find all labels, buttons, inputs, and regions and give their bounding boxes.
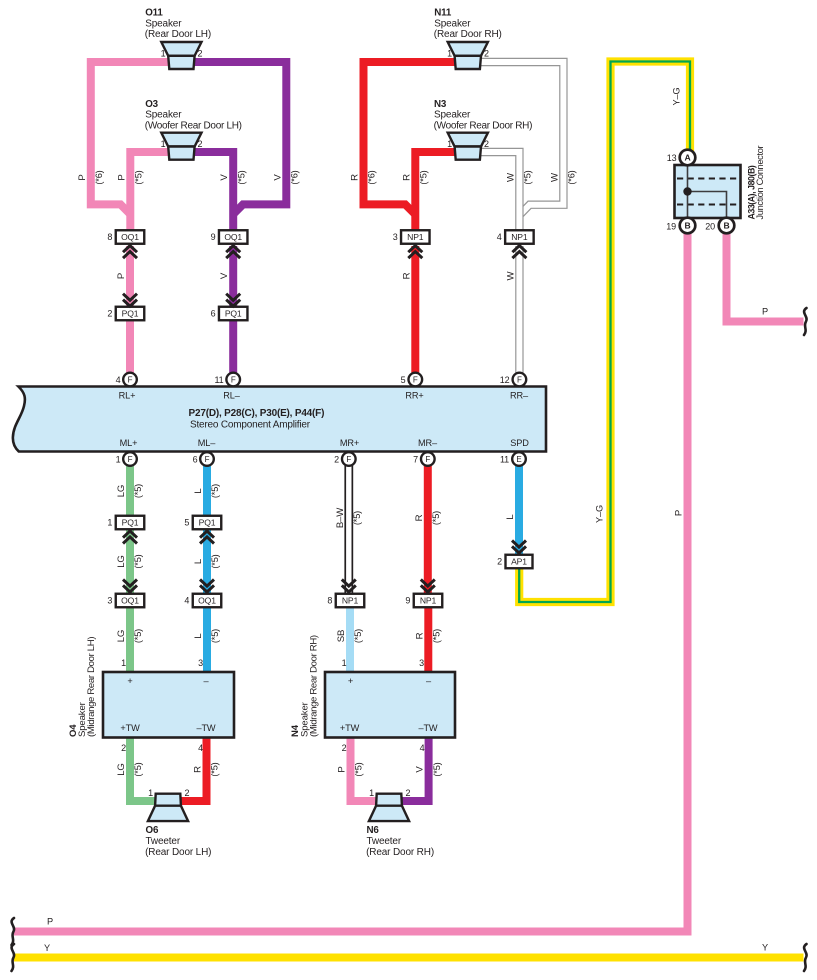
svg-text:2: 2	[406, 788, 411, 798]
svg-text:B: B	[684, 220, 690, 230]
amplifier P27(D) P28(C) P30(E) P44(F) Stereo Component Amplifier	[13, 387, 546, 452]
svg-text:P: P	[116, 174, 127, 180]
svg-text:1: 1	[121, 658, 126, 668]
svg-text:8: 8	[107, 232, 112, 242]
connector chevrons	[226, 246, 240, 253]
svg-text:NP1: NP1	[420, 596, 437, 606]
svg-text:Tweeter: Tweeter	[146, 836, 181, 847]
svg-text:6: 6	[193, 455, 198, 465]
svg-text:P: P	[674, 510, 685, 516]
svg-text:(*5): (*5)	[523, 170, 533, 184]
svg-text:F: F	[128, 375, 133, 384]
svg-text:19: 19	[666, 221, 676, 231]
svg-text:Y: Y	[762, 943, 768, 953]
connector chevrons	[123, 246, 137, 253]
connector AP1 pin 2	[506, 555, 533, 569]
svg-text:Y–G: Y–G	[595, 505, 605, 523]
svg-text:(*5): (*5)	[210, 629, 220, 643]
break symbol P wire right	[804, 308, 807, 335]
svg-text:F: F	[205, 455, 210, 464]
svg-text:Junction Connector: Junction Connector	[755, 145, 765, 219]
svg-text:1: 1	[447, 139, 452, 149]
junction pin A13	[680, 150, 696, 166]
svg-text:1: 1	[342, 658, 347, 668]
svg-text:OQ1: OQ1	[121, 596, 139, 606]
wire SB from NP1-8 to N4 pin 1	[346, 606, 354, 673]
svg-text:(Midrange Rear Door RH): (Midrange Rear Door RH)	[308, 635, 319, 737]
svg-text:3: 3	[419, 658, 424, 668]
svg-text:+: +	[127, 676, 132, 686]
wire V inner from O3 pin2 to connector OQ1-9	[193, 152, 233, 231]
connector chevrons	[123, 300, 137, 307]
connector chevrons	[200, 585, 214, 592]
svg-text:ML+: ML+	[120, 438, 138, 448]
svg-text:NP1: NP1	[342, 596, 359, 606]
svg-text:E: E	[516, 455, 521, 464]
junction pin B20	[719, 218, 735, 234]
amplifier pin 6 F	[200, 452, 214, 466]
speaker O4 (Midrange Rear Door LH)	[103, 672, 234, 738]
svg-text:7: 7	[413, 455, 418, 465]
svg-text:8: 8	[327, 596, 332, 606]
svg-text:Stereo Component Amplifier: Stereo Component Amplifier	[190, 420, 311, 431]
speaker N11 (Rear Door RH)	[448, 42, 488, 69]
svg-text:V: V	[219, 272, 230, 279]
svg-text:9: 9	[211, 232, 216, 242]
svg-text:F: F	[231, 375, 236, 384]
svg-text:LG: LG	[116, 630, 127, 643]
wire W from NP1-4 to amplifier pin 12	[515, 246, 523, 373]
connector NP1 pin 9	[414, 594, 443, 608]
wire R from NP1-9 to N4 pin 3	[424, 606, 432, 673]
connector PQ1 pin 2	[116, 307, 145, 321]
svg-text:(*5): (*5)	[210, 762, 220, 776]
svg-text:9: 9	[405, 596, 410, 606]
svg-text:Speaker: Speaker	[145, 110, 182, 121]
svg-text:P: P	[762, 307, 768, 317]
svg-text:R: R	[401, 174, 412, 181]
svg-text:(*5): (*5)	[134, 170, 144, 184]
svg-text:11: 11	[214, 375, 223, 385]
svg-text:P: P	[116, 273, 127, 279]
svg-text:+TW: +TW	[340, 723, 360, 733]
svg-text:(*5): (*5)	[133, 554, 143, 568]
svg-text:1: 1	[161, 139, 166, 149]
connector chevrons	[226, 300, 240, 307]
wire R from amplifier pin 7 to NP1-9	[424, 465, 432, 595]
svg-text:V: V	[272, 174, 283, 181]
svg-text:5: 5	[401, 375, 406, 385]
svg-text:Speaker: Speaker	[434, 18, 471, 29]
connector chevrons	[200, 531, 214, 538]
svg-text:O11: O11	[145, 8, 163, 19]
connector PQ1 pin 1	[116, 516, 145, 530]
svg-text:6: 6	[211, 309, 216, 319]
svg-text:F: F	[425, 455, 430, 464]
tweeter O6 (Rear Door LH)	[155, 794, 181, 806]
svg-text:RL–: RL–	[223, 391, 240, 401]
svg-text:LG: LG	[116, 763, 127, 776]
svg-text:(Midrange Rear Door LH): (Midrange Rear Door LH)	[86, 637, 97, 737]
svg-text:+: +	[348, 676, 353, 686]
svg-text:(Rear Door RH): (Rear Door RH)	[434, 29, 502, 40]
svg-text:20: 20	[705, 221, 715, 231]
svg-text:(Rear Door LH): (Rear Door LH)	[145, 29, 211, 40]
wire R inner from N3 pin1 to connector NP1-3	[415, 152, 457, 231]
speaker cone	[448, 133, 488, 147]
svg-text:2: 2	[334, 455, 339, 465]
speaker cone	[448, 42, 488, 56]
amplifier pin 7 F	[421, 452, 435, 466]
svg-text:(*5): (*5)	[419, 170, 429, 184]
svg-text:2: 2	[198, 139, 203, 149]
svg-text:(*6): (*6)	[94, 170, 104, 184]
wire L from amplifier pin 6 to PQ1-5	[203, 465, 211, 517]
svg-text:L: L	[193, 633, 204, 639]
svg-text:4: 4	[420, 743, 425, 753]
connector chevrons	[512, 246, 526, 253]
amplifier pin 12 F	[513, 373, 527, 387]
svg-text:4: 4	[184, 596, 189, 606]
svg-text:4: 4	[198, 743, 203, 753]
svg-text:2: 2	[107, 309, 112, 319]
connector PQ1 pin 5	[193, 516, 222, 530]
wire V outer from O11 pin2 to splice	[193, 62, 286, 215]
svg-text:O6: O6	[146, 825, 159, 836]
wire W inner from N3 pin2 to connector NP1-4	[478, 152, 519, 231]
wire LG between PQ1-1 and OQ1-3	[126, 528, 134, 595]
break symbol P wire bottom left	[12, 918, 15, 945]
wire P from junction pin B20 to right edge	[727, 232, 804, 322]
svg-text:N11: N11	[434, 8, 452, 19]
svg-text:–TW: –TW	[419, 723, 438, 733]
wire P from PQ1-2 to amplifier pin 4	[126, 319, 134, 373]
connector NP1 pin 8	[336, 594, 365, 608]
svg-text:(*5): (*5)	[133, 762, 143, 776]
svg-text:Y: Y	[44, 943, 50, 953]
speaker cone	[161, 42, 201, 56]
wire Y across bottom	[14, 954, 804, 962]
connector NP1 pin 4	[505, 230, 534, 244]
svg-text:(Rear Door RH): (Rear Door RH)	[366, 847, 434, 858]
svg-text:R: R	[414, 632, 425, 639]
svg-text:P: P	[77, 174, 88, 180]
svg-text:NP1: NP1	[511, 232, 528, 242]
amplifier pin 1 F	[123, 452, 137, 466]
svg-text:3: 3	[198, 658, 203, 668]
svg-text:(Woofer Rear Door RH): (Woofer Rear Door RH)	[434, 120, 533, 131]
wire V from PQ1-6 to amplifier pin 11	[229, 319, 237, 373]
svg-text:N3: N3	[434, 99, 447, 110]
wire P from junction pin B19 to bottom left	[14, 232, 688, 932]
svg-text:MR+: MR+	[340, 438, 359, 448]
svg-text:R: R	[401, 272, 412, 279]
svg-text:L: L	[193, 488, 204, 494]
svg-text:R: R	[193, 766, 204, 773]
connector OQ1 pin 4	[193, 594, 222, 608]
svg-text:(*5): (*5)	[210, 484, 220, 498]
wire P between OQ1-8 and PQ1-2	[126, 246, 134, 308]
amplifier pin 11 F	[226, 373, 240, 387]
svg-text:RR–: RR–	[510, 391, 529, 401]
svg-text:4: 4	[497, 232, 502, 242]
svg-text:NP1: NP1	[407, 232, 424, 242]
svg-text:(*5): (*5)	[236, 170, 246, 184]
svg-text:MR–: MR–	[418, 438, 438, 448]
wire P from N4 +TW to tweeter N6 pin 1	[351, 736, 378, 801]
svg-text:V: V	[219, 174, 230, 181]
svg-text:F: F	[346, 455, 351, 464]
svg-text:V: V	[415, 766, 426, 773]
svg-text:(*5): (*5)	[210, 554, 220, 568]
svg-text:SPD: SPD	[510, 438, 529, 448]
svg-text:R: R	[414, 514, 425, 521]
amplifier pin 11 E	[512, 452, 526, 466]
svg-text:2: 2	[484, 49, 489, 59]
svg-text:B–W: B–W	[335, 507, 346, 528]
connector chevrons	[342, 585, 356, 592]
svg-text:A: A	[684, 152, 690, 162]
junction pin B19	[680, 218, 696, 234]
connector chevrons	[408, 246, 422, 253]
junction connector A33(A) J80(B)	[675, 165, 741, 218]
wire LG from OQ1-3 to O4 pin 1	[126, 606, 134, 673]
svg-text:–TW: –TW	[197, 723, 216, 733]
svg-text:5: 5	[184, 518, 189, 528]
svg-text:W: W	[505, 172, 516, 182]
svg-text:P27(D), P28(C), P30(E), P44(F): P27(D), P28(C), P30(E), P44(F)	[189, 408, 325, 419]
wire L from amplifier pin SPD to AP1-2	[515, 465, 523, 556]
svg-text:1: 1	[161, 49, 166, 59]
wire R from O4 -TW to tweeter O6 pin 2	[179, 736, 207, 801]
svg-text:4: 4	[116, 375, 121, 385]
svg-text:AP1: AP1	[511, 557, 527, 567]
svg-text:(*6): (*6)	[367, 170, 377, 184]
svg-text:(Rear Door LH): (Rear Door LH)	[145, 847, 211, 858]
svg-text:L: L	[193, 558, 204, 564]
svg-text:W: W	[505, 270, 516, 280]
wire LG from O4 +TW to tweeter O6 pin 1	[130, 736, 157, 801]
connector OQ1 pin 8	[116, 230, 145, 244]
svg-text:(*5): (*5)	[352, 511, 362, 525]
svg-text:PQ1: PQ1	[122, 309, 139, 319]
svg-text:+TW: +TW	[120, 723, 140, 733]
svg-text:P: P	[47, 917, 53, 927]
wire L between PQ1-5 and OQ1-4	[203, 528, 211, 595]
connector chevrons	[123, 531, 137, 538]
svg-text:(*5): (*5)	[354, 762, 364, 776]
tweeter N6 (Rear Door RH)	[369, 794, 409, 821]
svg-text:(*5): (*5)	[431, 511, 441, 525]
svg-text:RR+: RR+	[405, 391, 423, 401]
svg-text:PQ1: PQ1	[199, 518, 216, 528]
svg-text:Tweeter: Tweeter	[367, 836, 402, 847]
wire L from OQ1-4 to O4 pin 3	[203, 606, 211, 673]
svg-text:11: 11	[500, 455, 509, 465]
wire B-W from amplifier pin 2 to NP1-8	[344, 465, 353, 595]
svg-text:12: 12	[500, 375, 510, 385]
break symbol Y wire bottom left	[12, 944, 15, 971]
wire P inner from O3 pin1 to connector OQ1-8	[130, 152, 170, 231]
svg-text:LG: LG	[116, 485, 127, 498]
connector chevrons	[123, 585, 137, 592]
svg-text:2: 2	[185, 788, 190, 798]
speaker O3 (Woofer Rear Door LH)	[161, 133, 201, 160]
connector OQ1 pin 9	[219, 230, 248, 244]
wire V from N4 -TW to tweeter N6 pin 2	[401, 736, 429, 801]
svg-text:R: R	[350, 174, 361, 181]
break symbol Y wire bottom right	[804, 944, 807, 971]
svg-text:1: 1	[116, 455, 121, 465]
amplifier pin 4 F	[123, 373, 137, 387]
svg-text:LG: LG	[116, 555, 127, 568]
speaker N3 (Woofer Rear Door RH)	[448, 133, 488, 160]
wire P outer from O11 pin1 to splice	[91, 62, 170, 215]
svg-text:(*5): (*5)	[432, 762, 442, 776]
wire R from NP1-3 to amplifier pin 5	[411, 246, 419, 373]
svg-text:1: 1	[447, 49, 452, 59]
connector chevrons	[512, 546, 526, 553]
svg-text:2: 2	[121, 743, 126, 753]
svg-text:2: 2	[497, 557, 502, 567]
svg-text:F: F	[413, 375, 418, 384]
junction splice dot	[683, 187, 691, 195]
svg-text:(*5): (*5)	[133, 629, 143, 643]
svg-text:(*5): (*5)	[432, 629, 442, 643]
svg-text:RL+: RL+	[119, 391, 136, 401]
wire Y-G from AP1-2 to junction connector pin A	[519, 62, 690, 603]
svg-text:F: F	[517, 375, 522, 384]
connector OQ1 pin 3	[116, 594, 145, 608]
connector chevrons	[421, 585, 435, 592]
svg-text:N6: N6	[367, 825, 380, 836]
speaker cone	[161, 133, 201, 147]
svg-text:W: W	[549, 172, 560, 182]
svg-text:1: 1	[148, 788, 153, 798]
svg-text:P: P	[337, 766, 348, 772]
svg-text:PQ1: PQ1	[225, 309, 242, 319]
svg-text:Speaker: Speaker	[434, 110, 471, 121]
svg-text:2: 2	[342, 743, 347, 753]
svg-text:13: 13	[667, 153, 677, 163]
svg-text:3: 3	[107, 596, 112, 606]
wire LG from amplifier pin 1 to PQ1-1	[126, 465, 134, 517]
connector PQ1 pin 6	[219, 307, 248, 321]
svg-text:(*5): (*5)	[353, 629, 363, 643]
wire V between OQ1-9 and PQ1-6	[229, 246, 237, 308]
svg-text:2: 2	[198, 49, 203, 59]
wire R outer from N11 pin1 to splice	[364, 62, 458, 215]
svg-text:L: L	[505, 514, 516, 520]
svg-text:Y–G: Y–G	[671, 88, 681, 106]
svg-text:OQ1: OQ1	[121, 232, 139, 242]
svg-text:2: 2	[484, 139, 489, 149]
svg-text:PQ1: PQ1	[122, 518, 139, 528]
svg-text:(Woofer Rear Door LH): (Woofer Rear Door LH)	[145, 120, 242, 131]
svg-text:ML–: ML–	[198, 438, 216, 448]
svg-text:(*5): (*5)	[133, 484, 143, 498]
wire W outer from N11 pin2 to splice	[478, 62, 563, 215]
svg-text:OQ1: OQ1	[224, 232, 242, 242]
svg-text:Speaker: Speaker	[145, 18, 182, 29]
svg-text:3: 3	[393, 232, 398, 242]
speaker N4 (Midrange Rear Door RH)	[325, 672, 455, 738]
svg-text:1: 1	[369, 788, 374, 798]
svg-text:O3: O3	[145, 99, 158, 110]
svg-text:(*6): (*6)	[290, 170, 300, 184]
svg-text:OQ1: OQ1	[198, 596, 216, 606]
svg-text:1: 1	[107, 518, 112, 528]
svg-text:SB: SB	[336, 630, 347, 643]
svg-text:F: F	[128, 455, 133, 464]
connector NP1 pin 3	[401, 230, 430, 244]
amplifier pin 5 F	[409, 373, 423, 387]
svg-text:B: B	[723, 220, 729, 230]
svg-text:(*6): (*6)	[567, 170, 577, 184]
amplifier pin 2 F	[342, 452, 356, 466]
